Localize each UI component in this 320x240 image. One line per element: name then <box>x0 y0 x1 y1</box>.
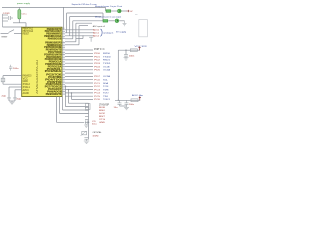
inductor L1 (green body) <box>106 10 111 13</box>
svg-text:SDA: SDA <box>103 82 109 85</box>
wire wrap 0 horizontal to net label <box>72 98 94 100</box>
wire cap C3 net <box>15 89 22 91</box>
junction dot wrap 0 <box>71 92 73 94</box>
svg-text:Required for ICSP when P is co: Required for ICSP when P is conn <box>72 3 98 6</box>
wire top run <box>76 22 92 24</box>
wire list row 11 to net label column <box>65 85 93 87</box>
wire net VCC top rail <box>2 6 106 8</box>
inductor L2 (green body) <box>103 20 108 23</box>
inductor L3 on rail <box>131 99 138 102</box>
IC right pin numbers (faint) <box>63 28 65 95</box>
wire wrap 2 vertical <box>65 86 67 106</box>
wire wrap 3 vertical <box>62 97 64 111</box>
wire C1 top stub <box>18 7 20 9</box>
wire XTAL1 net <box>3 83 22 85</box>
svg-text:TMS: TMS <box>103 89 109 91</box>
wire wrap 5 vertical <box>56 97 58 123</box>
wire list row 14 to net label column <box>65 95 93 97</box>
wire stub bottom row 1 <box>85 109 89 111</box>
wire pin row 3 to branch <box>65 38 73 40</box>
wire speaker 2 out <box>119 20 124 22</box>
svg-text:TXD0: TXD0 <box>103 56 112 58</box>
wire list row 12 to net label column <box>65 89 93 91</box>
net labels list (red column) <box>94 53 101 98</box>
wire top run to module 2 <box>73 20 103 22</box>
wire top run short <box>79 25 88 27</box>
wire top run TXD <box>67 12 103 14</box>
wire branch up from pin row 0 <box>63 7 65 29</box>
wire to IC top pin <box>25 23 27 27</box>
svg-text:J1 PWR: J1 PWR <box>3 13 11 15</box>
svg-text:PORT D / C: PORT D / C <box>94 49 105 51</box>
capacitor C7 <box>125 100 129 106</box>
power arrow bottom right <box>139 97 141 101</box>
wire RESET net <box>3 26 22 28</box>
net labels ADC (red) <box>93 29 100 38</box>
wire list row 2 to net label column <box>65 56 93 58</box>
resistor R5 on rail <box>130 49 137 52</box>
svg-text:23: 23 <box>63 70 65 72</box>
wire top run RXD <box>70 16 101 18</box>
wire caps join <box>120 105 127 107</box>
svg-text:VTG: VTG <box>99 119 105 121</box>
svg-text:RXD0: RXD0 <box>103 53 111 55</box>
wire drop to module 1 <box>105 7 107 11</box>
svg-text:AVCC filter: AVCC filter <box>132 94 143 97</box>
junction dot wrap 2 <box>65 86 67 88</box>
wire list row 1 to net label column <box>65 52 93 54</box>
svg-text:JTAG/ISP: JTAG/ISP <box>99 103 109 106</box>
ground symbol bottom right <box>124 106 129 110</box>
svg-text:36: 36 <box>63 37 65 39</box>
svg-text:ADC2: ADC2 <box>93 35 100 38</box>
wire gnd join <box>9 100 15 102</box>
capacitor C4 small <box>9 65 12 71</box>
wire mid right rail <box>118 49 140 51</box>
power arrow symbol top right <box>127 10 129 12</box>
junction dot bottom right <box>118 100 119 101</box>
wire branch up from pin row 5 <box>78 26 80 45</box>
wire pin row 0 to net label <box>65 29 93 31</box>
wire C1 row <box>13 22 26 24</box>
svg-text:power supply: power supply <box>17 2 31 5</box>
svg-text:RESET: RESET <box>2 37 9 39</box>
svg-text:MISO: MISO <box>99 110 105 112</box>
IC U1 left pin name texts (top) <box>23 28 34 36</box>
wire adc drop <box>82 35 84 38</box>
wire cap drop mid right <box>125 50 127 54</box>
svg-text:OC2A: OC2A <box>103 75 111 78</box>
wire pin row 2 to net label <box>65 35 93 37</box>
svg-text:C1 1u: C1 1u <box>22 14 27 16</box>
svg-text:Mosquito buzzer 1 to pin 11 ou: Mosquito buzzer 1 to pin 11 out <box>95 5 122 8</box>
svg-text:32kHz: 32kHz <box>93 136 99 138</box>
svg-text:CRYSTAL: CRYSTAL <box>93 131 103 134</box>
wire wrap 3 horizontal <box>63 109 89 111</box>
wire L1 to speaker <box>111 10 117 12</box>
capacitor C3 plates <box>13 97 16 98</box>
junction dot wrap 1 <box>68 89 70 91</box>
wire switch to IC <box>14 33 22 35</box>
capacitor C2 plates <box>7 97 10 98</box>
svg-text:14: 14 <box>63 93 65 95</box>
wire switch left <box>1 33 9 35</box>
ground symbol under C9 <box>84 124 88 127</box>
capacitor C10 plates <box>84 138 88 140</box>
wire branch up from pin row 1 <box>66 13 68 33</box>
wire pin row 1 to net label <box>65 32 93 34</box>
wire wrap 5 horizontal <box>57 121 85 123</box>
switch SW2 (reset button contacts) <box>9 30 15 33</box>
wire speaker out <box>122 10 127 12</box>
svg-text:PB0/XCK0/T0: PB0/XCK0/T0 <box>46 94 62 96</box>
svg-text:Mosquito buzzer 2 aux output: Mosquito buzzer 2 aux output <box>95 16 121 19</box>
svg-text:TOSC1: TOSC1 <box>103 99 111 101</box>
svg-text:TDI: TDI <box>103 96 109 98</box>
svg-text:MOSI: MOSI <box>99 107 105 109</box>
wire cap C2 net <box>9 86 22 88</box>
wire vertical join right <box>102 13 104 21</box>
ground symbol mid right <box>124 56 129 60</box>
svg-text:TDO: TDO <box>103 93 109 95</box>
wire wrap 1 horizontal <box>69 102 89 104</box>
wire C2 to gnd <box>8 99 10 101</box>
wire J1 down to reset row <box>2 21 4 27</box>
wire wrap 0 vertical <box>71 93 73 100</box>
IC U1 left pin name texts (bottom) <box>23 74 32 95</box>
net labels list (blue column) <box>103 53 112 98</box>
wire long vertical right <box>117 50 119 100</box>
wire C3 to gnd <box>14 99 16 101</box>
svg-text:SCK: SCK <box>99 113 106 115</box>
speaker LS1 (green circle) <box>117 9 121 13</box>
wire stub bottom row 5 <box>85 121 89 123</box>
wire list row 10 to net label column <box>65 82 93 84</box>
wire XTAL2 net <box>3 75 22 77</box>
wire C1 bottom stem <box>18 19 20 23</box>
svg-text:OC1A: OC1A <box>103 69 111 72</box>
svg-text:TXD1: TXD1 <box>103 63 112 65</box>
wire adc jog <box>76 38 83 40</box>
IC right pin stubs <box>62 29 65 94</box>
svg-text:ADC1: ADC1 <box>93 32 100 35</box>
wire bottom right rail <box>115 99 140 101</box>
wire wrap 4 vertical <box>59 97 61 114</box>
wire list row 7 to net label column <box>65 72 93 74</box>
push button SW1 body <box>3 14 14 21</box>
wire wrap 1 vertical <box>68 90 70 104</box>
svg-text:ADC0: ADC0 <box>93 29 100 32</box>
svg-text:OC1B: OC1B <box>103 66 110 68</box>
wire stub bottom row 3 <box>85 115 89 117</box>
brace (blue) <box>100 29 102 36</box>
wire branch up from pin row 4 <box>75 23 77 42</box>
resistor RN1 on vertical bus <box>86 104 90 110</box>
svg-text:RESET: RESET <box>23 32 30 35</box>
wire list row 13 to net label column <box>65 92 93 94</box>
crystal X1 body <box>1 78 5 82</box>
svg-text:ADC inputs x3: ADC inputs x3 <box>93 25 106 28</box>
ground symbol bottom <box>84 139 89 143</box>
wire stub bottom row 2 <box>85 112 89 114</box>
wire list row 8 to net label column <box>65 75 93 77</box>
wire stub bottom row 4 <box>85 118 89 120</box>
svg-text:5V supply: 5V supply <box>116 32 127 34</box>
speaker LS2 (green circle) <box>115 19 119 23</box>
wire pin row 5 to branch <box>65 44 79 46</box>
svg-text:RXD1: RXD1 <box>103 60 111 62</box>
capacitor C6 <box>118 100 122 106</box>
wire list row 5 to net label column <box>65 66 93 68</box>
svg-text:PB4/SS/OC0B: PB4/SS/OC0B <box>48 37 62 40</box>
wire crystal left vertical <box>2 76 4 85</box>
wire wrap 2 horizontal <box>66 106 89 108</box>
ground symbol row2 <box>123 21 127 26</box>
wire list row 6 to net label column <box>65 69 93 71</box>
wire list row 3 to net label column <box>65 59 93 61</box>
wire C2 drop <box>8 87 10 97</box>
svg-text:analog in: analog in <box>103 33 114 35</box>
power arrow mid right <box>139 47 141 51</box>
svg-text:GND: GND <box>99 122 106 124</box>
battery BT1 outline (faint) <box>139 20 148 37</box>
IC U1 ATMEGA324 microcontroller body <box>22 27 62 96</box>
svg-text:PC1/SDA: PC1/SDA <box>45 70 62 73</box>
wire vertical bus x=88.5 <box>88 103 90 139</box>
wire list row 9 to net label column <box>65 79 93 81</box>
wire pin row 4 to branch <box>65 41 76 43</box>
wire C3 drop <box>14 90 16 97</box>
IC U1 right pin name texts <box>44 29 62 96</box>
capacitor C1 electrolytic (green) <box>18 10 21 20</box>
svg-text:RST: RST <box>99 116 106 118</box>
wire list row 4 to net label column <box>65 62 93 64</box>
wire branch up from pin row 2 <box>69 17 71 36</box>
crystal X2 body <box>82 131 87 134</box>
wire branch up from pin row 3 <box>72 21 74 39</box>
svg-text:TCK: TCK <box>103 86 109 88</box>
svg-text:ATMEGA324PA-AU: ATMEGA324PA-AU <box>36 60 39 94</box>
ground symbol left <box>10 101 14 105</box>
power bar symbol near rows <box>89 37 93 42</box>
capacitor C5 plates <box>124 55 128 57</box>
svg-text:VCC 3V3: VCC 3V3 <box>135 46 148 48</box>
wire stub bottom row 0 <box>85 106 89 108</box>
svg-text:AGND: AGND <box>23 92 29 95</box>
wire list row 0 to net label column <box>65 49 93 51</box>
junction dot <box>88 122 90 124</box>
wire wrap 4 horizontal <box>60 112 89 114</box>
wire L2 to speaker 2 <box>108 20 115 22</box>
junction dot mid right <box>125 50 126 51</box>
capacitor C9 polarized <box>85 120 87 124</box>
